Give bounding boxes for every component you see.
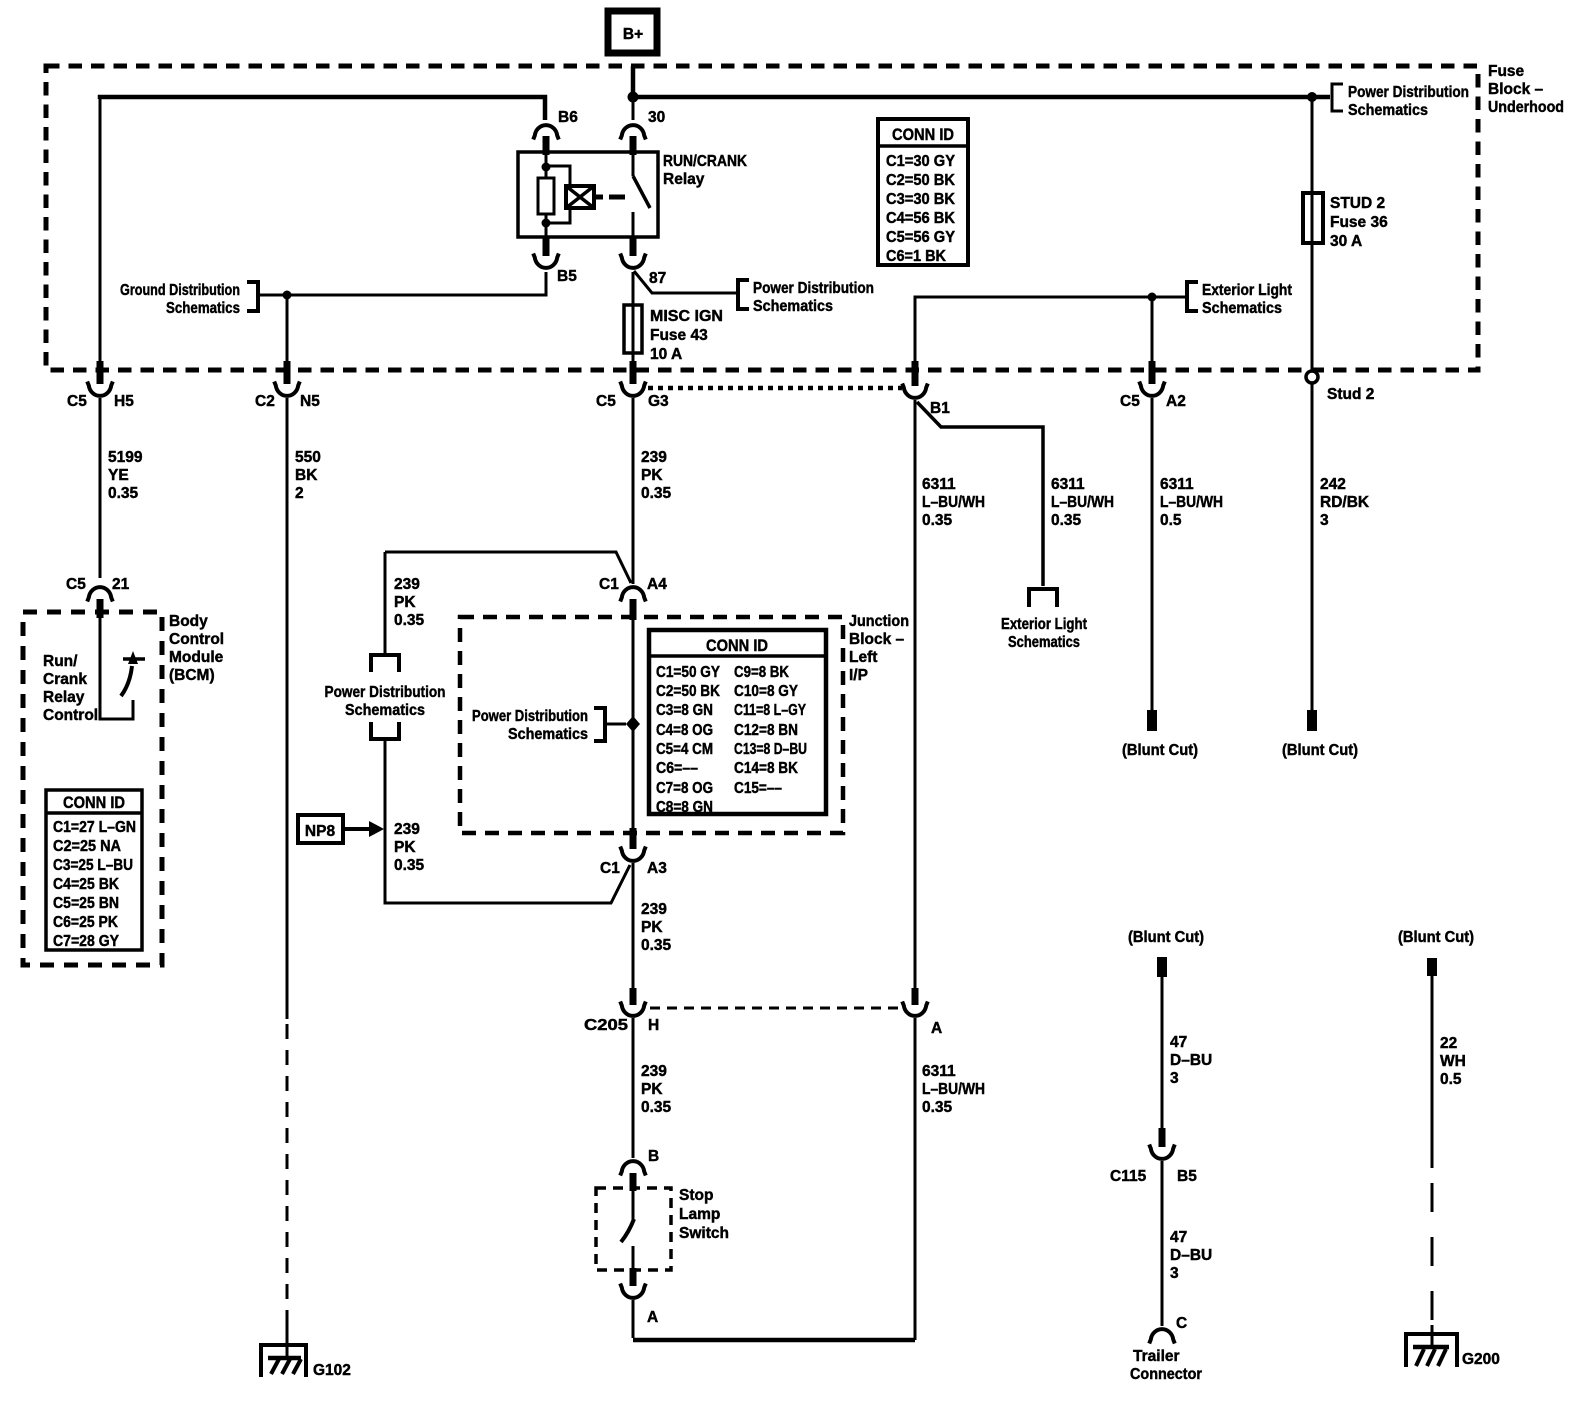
wire coil branch bottom xyxy=(546,208,570,223)
svg-text:0.35: 0.35 xyxy=(394,857,425,874)
wire 87 to power distribution xyxy=(634,271,737,293)
svg-text:A2: A2 xyxy=(1166,393,1186,410)
stop lamp switch dashed box xyxy=(596,1188,671,1270)
junction block dashed box xyxy=(460,617,843,833)
node relay coil bottom xyxy=(542,219,551,228)
svg-text:(Blunt Cut): (Blunt Cut) xyxy=(1122,742,1198,759)
svg-text:WH: WH xyxy=(1440,1053,1466,1070)
label Ground Distribution Schematics xyxy=(120,282,240,317)
svg-text:C2=50 BK: C2=50 BK xyxy=(656,683,721,700)
svg-text:Fuse 36: Fuse 36 xyxy=(1330,214,1388,231)
label 47 D-BU 3 (lower) xyxy=(1170,1229,1212,1282)
svg-text:Schematics: Schematics xyxy=(1202,300,1282,317)
svg-text:C3=25 L–BU: C3=25 L–BU xyxy=(53,857,133,874)
wire B+ down into fuse block xyxy=(631,66,636,95)
wire 5199 YE xyxy=(99,398,102,578)
stub B5 from relay xyxy=(543,238,550,256)
svg-text:D–BU: D–BU xyxy=(1170,1052,1212,1069)
label Run/Crank Relay Control xyxy=(43,653,98,724)
svg-text:PK: PK xyxy=(641,919,663,936)
bracket Power Distribution Schematics top right xyxy=(1332,84,1343,111)
svg-text:C10=8 GY: C10=8 GY xyxy=(734,683,799,700)
ground G102 symbol xyxy=(261,1345,306,1377)
svg-text:C1=30 GY: C1=30 GY xyxy=(886,153,956,170)
relay switch blade xyxy=(633,176,650,208)
bracket Power Distribution Schematics (junction) xyxy=(594,708,605,741)
wire N5 drop xyxy=(286,295,289,367)
svg-text:(BCM): (BCM) xyxy=(169,667,215,684)
svg-text:10 A: 10 A xyxy=(650,346,682,363)
label RUN/CRANK Relay xyxy=(663,153,748,188)
wire B1 branch to exterior light xyxy=(917,402,1043,586)
svg-text:B6: B6 xyxy=(558,109,578,126)
wire 87 to fuse 43 xyxy=(632,272,635,305)
svg-text:Junction: Junction xyxy=(849,613,909,630)
svg-text:Control: Control xyxy=(169,631,224,648)
label 6311 L-BU/WH 0.5 (A2) xyxy=(1160,476,1223,529)
svg-text:Relay: Relay xyxy=(43,689,85,706)
connector pin B cup xyxy=(620,1161,646,1175)
fuse block underhood dashed box xyxy=(46,66,1478,370)
svg-text:6311: 6311 xyxy=(1051,476,1085,493)
svg-text:B+: B+ xyxy=(623,26,643,43)
svg-text:Exterior Light: Exterior Light xyxy=(1001,616,1087,633)
bracket Power Distribution Schematics mid xyxy=(738,280,749,309)
svg-text:B5: B5 xyxy=(557,268,577,285)
stop lamp switch top contact xyxy=(632,1188,635,1220)
relay U1 RUN/CRANK box xyxy=(518,152,658,237)
wire 239 PK to stop lamp switch xyxy=(632,1018,635,1158)
conn id table BCM xyxy=(46,790,142,950)
offpage symbol top Power Distribution Schematics xyxy=(371,655,399,672)
connector pin A2 cup xyxy=(1139,382,1165,396)
label 47 D-BU 3 (upper) xyxy=(1170,1034,1212,1087)
svg-text:Crank: Crank xyxy=(43,671,87,688)
connector pin A cup (C205) xyxy=(902,1002,928,1016)
svg-text:C2=50 BK: C2=50 BK xyxy=(886,172,956,189)
B+ terminal box xyxy=(608,11,657,53)
svg-text:Power Distribution: Power Distribution xyxy=(472,708,588,725)
svg-text:C: C xyxy=(1176,1315,1187,1332)
wire 550 BK dashed section xyxy=(286,1024,289,1320)
svg-text:MISC IGN: MISC IGN xyxy=(650,308,723,325)
wire 550 BK down xyxy=(286,398,289,1019)
svg-text:C5: C5 xyxy=(1120,393,1140,410)
label Power Distribution Schematics (junction) xyxy=(472,708,588,743)
svg-text:Relay: Relay xyxy=(663,171,705,188)
svg-text:C4=56 BK: C4=56 BK xyxy=(886,210,956,227)
svg-text:C1=27 L–GN: C1=27 L–GN xyxy=(53,819,136,836)
connector pin N5 cup xyxy=(274,382,300,396)
svg-text:NP8: NP8 xyxy=(305,823,336,840)
svg-text:Stud 2: Stud 2 xyxy=(1327,386,1374,403)
svg-text:Trailer: Trailer xyxy=(1133,1348,1180,1365)
svg-text:(Blunt Cut): (Blunt Cut) xyxy=(1282,742,1358,759)
svg-text:3: 3 xyxy=(1320,512,1329,529)
svg-text:C115: C115 xyxy=(1110,1168,1147,1185)
svg-text:Run/: Run/ xyxy=(43,653,78,670)
stub B1 xyxy=(912,361,919,386)
svg-text:0.35: 0.35 xyxy=(394,612,425,629)
svg-text:0.35: 0.35 xyxy=(922,512,953,529)
label Exterior Light Schematics xyxy=(1202,282,1292,317)
stub A4 into junction block xyxy=(630,599,637,620)
svg-text:Stop: Stop xyxy=(679,1187,713,1204)
svg-text:C8=8 GN: C8=8 GN xyxy=(656,799,713,816)
svg-text:C14=8 BK: C14=8 BK xyxy=(734,760,799,777)
svg-text:C5=56 GY: C5=56 GY xyxy=(886,229,956,246)
svg-text:0.35: 0.35 xyxy=(108,485,139,502)
blunt cut stub stud2 xyxy=(1307,710,1317,731)
wire B5 down to ground distribution line xyxy=(259,272,546,295)
svg-text:C7=8 OG: C7=8 OG xyxy=(656,780,713,797)
svg-text:2: 2 xyxy=(295,485,304,502)
wire offpage down to NP8 corner xyxy=(385,739,630,903)
label Power Distribution Schematics (offpage) xyxy=(325,684,446,719)
label 6311 L-BU/WH 0.35 (B1) xyxy=(922,476,985,529)
svg-text:Schematics: Schematics xyxy=(345,702,425,719)
wire resistor bottom xyxy=(545,214,548,237)
stub B6 into relay xyxy=(543,136,550,155)
svg-text:CONN ID: CONN ID xyxy=(892,125,954,144)
connector pin B1 cup xyxy=(902,384,928,398)
svg-text:239: 239 xyxy=(641,449,667,466)
wire fuse43 to G3 xyxy=(632,353,635,367)
svg-text:RUN/CRANK: RUN/CRANK xyxy=(663,153,748,170)
node B+ junction xyxy=(628,92,639,103)
svg-text:PK: PK xyxy=(394,839,416,856)
svg-text:0.35: 0.35 xyxy=(641,937,672,954)
label 239 PK 0.35 (NP8) xyxy=(394,821,425,874)
svg-text:C4=8 OG: C4=8 OG xyxy=(656,722,713,739)
stub C115 B5 xyxy=(1159,1128,1166,1147)
label Stop Lamp Switch xyxy=(679,1187,729,1242)
svg-text:H5: H5 xyxy=(114,393,134,410)
svg-text:G102: G102 xyxy=(313,1362,351,1379)
svg-text:A: A xyxy=(647,1309,658,1326)
svg-text:47: 47 xyxy=(1170,1034,1187,1051)
wire B+ bus to right xyxy=(633,95,1330,100)
label Power Distribution Schematics top right xyxy=(1348,84,1469,119)
svg-text:C5: C5 xyxy=(596,393,616,410)
svg-text:Schematics: Schematics xyxy=(508,726,588,743)
svg-text:C11=8 L–GY: C11=8 L–GY xyxy=(734,702,807,719)
svg-text:C5=25 BN: C5=25 BN xyxy=(53,895,119,912)
conn id table junction block xyxy=(649,630,826,816)
svg-text:5199: 5199 xyxy=(108,449,143,466)
svg-text:Control: Control xyxy=(43,707,98,724)
svg-text:30: 30 xyxy=(648,109,665,126)
svg-text:RD/BK: RD/BK xyxy=(1320,494,1370,511)
node relay coil top xyxy=(542,163,551,172)
svg-text:Lamp: Lamp xyxy=(679,1206,720,1223)
svg-text:PK: PK xyxy=(641,1081,663,1098)
label 239 PK 0.35 (branch) xyxy=(394,576,425,629)
svg-text:Switch: Switch xyxy=(679,1225,729,1242)
offpage symbol bottom xyxy=(371,722,399,739)
conn id table fuse block xyxy=(878,119,968,265)
stop lamp switch bottom contact xyxy=(632,1246,635,1268)
relay switch top contact xyxy=(632,152,635,176)
blunt cut stub G200 xyxy=(1427,958,1437,976)
svg-text:N5: N5 xyxy=(300,393,320,410)
svg-text:Power Distribution: Power Distribution xyxy=(325,684,446,701)
wire into G200 xyxy=(1431,1325,1434,1347)
svg-text:3: 3 xyxy=(1170,1265,1179,1282)
svg-text:3: 3 xyxy=(1170,1070,1179,1087)
svg-text:6311: 6311 xyxy=(1160,476,1194,493)
stub A2 xyxy=(1149,361,1156,384)
svg-text:Power Distribution: Power Distribution xyxy=(1348,84,1469,101)
coil actuator stub xyxy=(594,195,603,200)
wire 239 PK from G3 to A4 xyxy=(632,398,635,584)
relay coil feed wire xyxy=(545,152,548,178)
connector pin H cup xyxy=(620,1002,646,1016)
svg-text:239: 239 xyxy=(641,901,667,918)
svg-text:Block –: Block – xyxy=(849,631,905,648)
wire stud2 down to blunt cut xyxy=(1311,383,1314,710)
svg-text:C3=30 BK: C3=30 BK xyxy=(886,191,956,208)
svg-text:C1: C1 xyxy=(599,576,619,593)
label 239 PK 0.35 (G3) xyxy=(641,449,672,502)
dashed C205 connector line xyxy=(650,1007,898,1010)
svg-text:0.35: 0.35 xyxy=(641,485,672,502)
svg-text:L–BU/WH: L–BU/WH xyxy=(922,1081,985,1098)
wire left drop to H5 xyxy=(99,97,102,367)
coil L1 crossed box xyxy=(566,186,594,208)
svg-text:L–BU/WH: L–BU/WH xyxy=(922,494,985,511)
label Trailer Connector xyxy=(1130,1348,1202,1383)
wire into G102 xyxy=(286,1320,289,1357)
label 550 BK 2 xyxy=(295,449,321,502)
stub G3 xyxy=(630,361,637,384)
svg-text:C2: C2 xyxy=(255,393,275,410)
label Exterior Light Schematics (offpage) xyxy=(1001,616,1087,651)
label Body Control Module (BCM) xyxy=(169,613,224,684)
svg-text:Fuse 43: Fuse 43 xyxy=(650,327,708,344)
stub 21 into BCM xyxy=(97,599,104,618)
stub C205 H xyxy=(630,988,637,1005)
fuse F36 STUD 2 xyxy=(1303,193,1323,243)
svg-text:(Blunt Cut): (Blunt Cut) xyxy=(1128,929,1204,946)
label 6311 L-BU/WH 0.35 (lower) xyxy=(922,1063,985,1116)
svg-text:550: 550 xyxy=(295,449,321,466)
svg-text:C2=25 NA: C2=25 NA xyxy=(53,838,121,855)
svg-text:G3: G3 xyxy=(648,393,669,410)
svg-text:0.35: 0.35 xyxy=(641,1099,672,1116)
stub A out of stop lamp switch xyxy=(630,1268,637,1286)
wire coil branch top xyxy=(546,166,570,186)
svg-text:H: H xyxy=(648,1017,659,1034)
connector pin A cup (stop lamp) xyxy=(620,1284,646,1298)
wire 22 WH xyxy=(1431,976,1434,1168)
label STUD 2 Fuse 36 30 A xyxy=(1330,195,1388,250)
svg-text:A4: A4 xyxy=(647,576,667,593)
BCM driver switch blade xyxy=(121,666,132,696)
svg-text:Underhood: Underhood xyxy=(1488,99,1564,116)
label Junction Block Left I/P xyxy=(849,613,909,684)
offpage symbol exterior light xyxy=(1029,589,1057,607)
svg-text:242: 242 xyxy=(1320,476,1346,493)
ground G200 symbol xyxy=(1406,1334,1457,1367)
wire junction to A2 xyxy=(1151,297,1154,367)
connector pin G3 cup xyxy=(620,382,646,396)
wire branch drop xyxy=(384,552,387,654)
svg-text:C5: C5 xyxy=(66,576,86,593)
svg-text:Ground Distribution: Ground Distribution xyxy=(120,282,240,299)
dotted junction block feed line xyxy=(648,386,902,391)
svg-text:6311: 6311 xyxy=(922,476,956,493)
label 22 WH 0.5 xyxy=(1440,1035,1466,1088)
stub connector A (C205) xyxy=(912,988,919,1005)
svg-text:C3=8 GN: C3=8 GN xyxy=(656,702,713,719)
connector pin 87 cup xyxy=(620,254,646,268)
svg-text:C1: C1 xyxy=(600,860,620,877)
stub B into stop lamp switch xyxy=(630,1173,637,1191)
stop lamp switch blade xyxy=(621,1219,634,1242)
stub 87 from relay xyxy=(630,238,637,256)
wire bus left segment to B6 xyxy=(100,97,545,120)
svg-text:30 A: 30 A xyxy=(1330,233,1362,250)
node stud2 junction xyxy=(1307,92,1317,102)
wire 30 drop xyxy=(632,97,635,120)
BCM driver switch wire xyxy=(100,618,133,719)
wire A3 down to C205 xyxy=(632,863,635,988)
svg-text:C7=28 GY: C7=28 GY xyxy=(53,933,120,950)
wire fuse36 to stud ring xyxy=(1311,243,1314,371)
stub A3 xyxy=(630,828,637,849)
svg-text:239: 239 xyxy=(394,821,420,838)
resistor R relay suppression xyxy=(538,178,554,214)
stub H5 xyxy=(97,361,104,384)
BCM dashed box xyxy=(23,612,162,965)
svg-text:0.35: 0.35 xyxy=(922,1099,953,1116)
stub 30 into relay xyxy=(630,136,637,155)
fuse F43 MISC IGN xyxy=(624,305,642,353)
wire A2 down to blunt cut xyxy=(1151,398,1154,710)
svg-text:C12=8 BN: C12=8 BN xyxy=(734,722,798,739)
label 242 RD/BK 3 xyxy=(1320,476,1370,529)
svg-text:B: B xyxy=(648,1148,659,1165)
connector pin A3 cup xyxy=(620,847,646,861)
svg-text:Body: Body xyxy=(169,613,208,630)
NP8 box xyxy=(298,815,343,843)
svg-text:C5: C5 xyxy=(67,393,87,410)
wire B1 down xyxy=(914,400,917,988)
svg-text:22: 22 xyxy=(1440,1035,1457,1052)
svg-text:Schematics: Schematics xyxy=(1348,102,1428,119)
wire stud2 drop xyxy=(1311,97,1314,193)
svg-text:C6=25 PK: C6=25 PK xyxy=(53,914,119,931)
label 239 PK 0.35 (A3) xyxy=(641,901,672,954)
svg-text:B1: B1 xyxy=(930,400,950,417)
svg-text:C6=––: C6=–– xyxy=(656,760,698,777)
svg-text:BK: BK xyxy=(295,467,318,484)
svg-text:L–BU/WH: L–BU/WH xyxy=(1051,494,1114,511)
wire bottom run to connector A xyxy=(633,1338,915,1343)
svg-text:PK: PK xyxy=(641,467,663,484)
svg-text:B5: B5 xyxy=(1177,1168,1197,1185)
svg-text:0.35: 0.35 xyxy=(1051,512,1082,529)
connector pin 21 cup xyxy=(87,587,113,601)
NP8 arrow xyxy=(343,827,370,831)
bracket Ground Distribution Schematics xyxy=(247,282,258,311)
svg-text:Connector: Connector xyxy=(1130,1366,1202,1383)
svg-text:I/P: I/P xyxy=(849,667,868,684)
svg-text:Module: Module xyxy=(169,649,224,666)
connector pin B5 cup (C115) xyxy=(1149,1145,1175,1159)
wire branch to A4 horizontal xyxy=(385,552,631,583)
wire exterior light header xyxy=(915,297,1186,367)
BCM driver switch arrowhead xyxy=(128,651,138,664)
svg-text:A3: A3 xyxy=(647,860,667,877)
svg-text:Block –: Block – xyxy=(1488,81,1544,98)
svg-text:L–BU/WH: L–BU/WH xyxy=(1160,494,1223,511)
wire 22 WH dashed section xyxy=(1431,1183,1434,1325)
svg-text:239: 239 xyxy=(641,1063,667,1080)
label MISC IGN Fuse 43 10 A xyxy=(650,308,723,363)
bracket Exterior Light Schematics xyxy=(1187,282,1198,311)
blunt cut stub A2 xyxy=(1147,710,1157,731)
svg-text:A: A xyxy=(931,1020,942,1037)
svg-text:C5=4 CM: C5=4 CM xyxy=(656,741,713,758)
svg-text:YE: YE xyxy=(108,467,129,484)
relay switch bottom contact xyxy=(632,212,635,237)
svg-text:C205: C205 xyxy=(584,1017,628,1034)
svg-text:239: 239 xyxy=(394,576,420,593)
node junction diamond xyxy=(626,716,640,732)
svg-text:Schematics: Schematics xyxy=(1008,634,1080,651)
wire 47 D-BU lower xyxy=(1161,1161,1164,1326)
connector pin A4 cup xyxy=(620,587,646,601)
wire riser to connector A xyxy=(914,1018,917,1340)
svg-text:PK: PK xyxy=(394,594,416,611)
svg-text:C4=25 BK: C4=25 BK xyxy=(53,876,120,893)
svg-text:D–BU: D–BU xyxy=(1170,1247,1212,1264)
svg-text:C6=1 BK: C6=1 BK xyxy=(886,248,947,265)
svg-text:G200: G200 xyxy=(1462,1351,1500,1368)
label Power Distribution Schematics mid xyxy=(753,280,874,315)
connector pin H5 cup xyxy=(87,382,113,396)
svg-text:C1=50 GY: C1=50 GY xyxy=(656,664,721,681)
svg-text:CONN ID: CONN ID xyxy=(63,793,125,812)
stub N5 xyxy=(284,361,291,384)
connector pin 30 cup xyxy=(620,125,646,139)
label 5199 YE 0.35 xyxy=(108,449,143,502)
label Fuse Block Underhood xyxy=(1488,63,1564,116)
wire stop lamp to riser xyxy=(632,1300,635,1338)
svg-text:Schematics: Schematics xyxy=(166,300,240,317)
label 239 PK 0.35 (C205) xyxy=(641,1063,672,1116)
connector pin B5 cup xyxy=(533,254,559,268)
svg-text:Fuse: Fuse xyxy=(1488,63,1525,80)
connector pin C cup (trailer) xyxy=(1149,1329,1175,1343)
node exterior light junction xyxy=(1148,293,1157,302)
node ground distribution junction xyxy=(283,291,292,300)
svg-text:0.5: 0.5 xyxy=(1440,1071,1462,1088)
svg-text:C9=8 BK: C9=8 BK xyxy=(734,664,790,681)
wire 47 D-BU upper xyxy=(1161,977,1164,1128)
actuator dashed link xyxy=(609,195,625,200)
BCM driver switch crossbar xyxy=(123,657,145,661)
svg-text:C15=––: C15=–– xyxy=(734,780,782,797)
svg-text:(Blunt Cut): (Blunt Cut) xyxy=(1398,929,1474,946)
blunt cut stub trailer xyxy=(1157,957,1167,977)
svg-text:47: 47 xyxy=(1170,1229,1187,1246)
svg-text:87: 87 xyxy=(649,270,666,287)
svg-text:STUD 2: STUD 2 xyxy=(1330,195,1385,212)
wire A4 to A3 inside junction block xyxy=(632,620,635,828)
